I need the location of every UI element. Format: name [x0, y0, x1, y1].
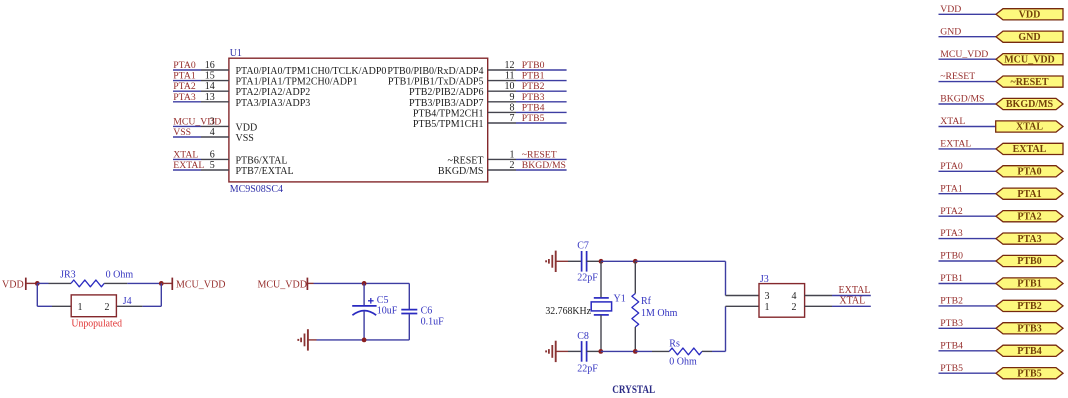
wire to port PTB2	[939, 305, 997, 307]
svg-text:PTB4: PTB4	[522, 102, 545, 113]
svg-text:PTA2: PTA2	[1017, 211, 1041, 222]
port PTA3	[996, 233, 1063, 245]
ground (C5/C6 section)	[298, 329, 308, 350]
C6 value 0.1uF	[421, 316, 445, 327]
svg-text:0 Ohm: 0 Ohm	[669, 356, 697, 367]
svg-text:7: 7	[510, 113, 515, 124]
net label PTB5 (port row)	[940, 363, 963, 374]
net label BKGD/MS	[522, 160, 566, 171]
svg-text:PTB2: PTB2	[1017, 301, 1041, 312]
J3 designator	[760, 274, 769, 285]
capacitor C6	[401, 283, 417, 340]
wire J3 pin 2 (XTAL)	[805, 305, 871, 307]
U1 pin name PTB1/PIB1/TxD/ADP5	[388, 77, 484, 88]
U1 pin 2 (BKGD/MS) right wire	[488, 160, 567, 171]
svg-text:2: 2	[510, 160, 515, 171]
net label GND (port row)	[940, 26, 961, 37]
U1 designator	[230, 48, 242, 59]
svg-text:XTAL: XTAL	[1016, 122, 1043, 133]
C5 value 10uF	[377, 306, 398, 317]
junction node C5 top	[362, 281, 367, 286]
port MCU_VDD	[996, 54, 1063, 66]
svg-text:6: 6	[210, 149, 215, 160]
svg-text:XTAL: XTAL	[173, 149, 198, 160]
svg-text:C6: C6	[421, 306, 433, 317]
ground (C8)	[546, 341, 556, 362]
svg-text:2: 2	[105, 302, 110, 313]
svg-text:PTA1: PTA1	[173, 71, 196, 82]
Y1 designator	[614, 293, 626, 304]
wire top row to J3 pin 3	[635, 261, 759, 295]
U1 pin 5 (EXTAL) left wire	[173, 160, 229, 171]
JR3 value 0 Ohm	[106, 270, 134, 281]
svg-text:PTB7/EXTAL: PTB7/EXTAL	[236, 166, 294, 177]
net label PTB5	[522, 113, 545, 124]
net label PTB0	[522, 60, 545, 71]
svg-text:~RESET: ~RESET	[940, 71, 975, 82]
wire to port EXTAL	[939, 148, 997, 150]
svg-text:PTB5: PTB5	[940, 363, 963, 374]
U1 pin name PTB7/EXTAL	[236, 166, 294, 177]
svg-text:EXTAL: EXTAL	[1013, 144, 1047, 155]
capacitor C7	[582, 251, 587, 272]
crystal Y1	[591, 261, 611, 351]
port EXTAL	[996, 143, 1063, 155]
J3 pin number 2	[792, 302, 797, 313]
svg-text:PTA3/PIA3/ADP3: PTA3/PIA3/ADP3	[236, 98, 311, 109]
J4 note Unpopulated	[71, 318, 122, 329]
net label BKGD/MS (port row)	[940, 94, 984, 105]
svg-text:4: 4	[210, 127, 215, 138]
svg-text:22pF: 22pF	[577, 363, 598, 374]
svg-text:PTB1: PTB1	[1017, 279, 1041, 290]
capacitor C5 (polarized)	[352, 283, 376, 340]
svg-text:MCU_VDD: MCU_VDD	[940, 49, 988, 60]
svg-text:VDD: VDD	[1019, 10, 1041, 21]
port GND	[996, 31, 1063, 43]
U1 pin name PTB6/XTAL	[236, 155, 288, 166]
svg-text:PTB3: PTB3	[522, 92, 545, 103]
svg-text:PTA3: PTA3	[940, 228, 963, 239]
svg-text:1M Ohm: 1M Ohm	[641, 308, 678, 319]
net label EXTAL	[173, 160, 204, 171]
net label PTA1 (port row)	[940, 183, 963, 194]
U1 pin 10 (PTB2) right wire	[488, 81, 567, 92]
U1 pin name PTB4/TPM2CH1	[413, 108, 484, 119]
svg-text:PTA1/PIA1/TPM2CH0/ADP1: PTA1/PIA1/TPM2CH0/ADP1	[236, 77, 358, 88]
svg-text:10uF: 10uF	[377, 306, 398, 317]
svg-text:PTB2: PTB2	[522, 81, 545, 92]
svg-text:EXTAL: EXTAL	[839, 285, 871, 296]
U1 pin 14 (PTA2) left wire	[173, 81, 229, 92]
port PTA1	[996, 188, 1063, 200]
U1 pin name PTA2/PIA2/ADP2	[236, 87, 311, 98]
net label PTB3 (port row)	[940, 318, 963, 329]
U1 pin 15 (PTA1) left wire	[173, 71, 229, 82]
svg-text:PTB5/TPM1CH1: PTB5/TPM1CH1	[413, 119, 484, 130]
U1 pin 3 (MCU_VDD) left wire	[173, 116, 229, 127]
svg-text:PTB2: PTB2	[940, 296, 963, 307]
svg-text:PTB0: PTB0	[940, 251, 963, 262]
JR3 designator	[60, 270, 76, 281]
svg-text:PTA0: PTA0	[940, 161, 963, 172]
svg-text:PTA2/PIA2/ADP2: PTA2/PIA2/ADP2	[236, 87, 311, 98]
U1 pin name PTB0/PIB0/RxD/ADP4	[387, 66, 483, 77]
U1 pin 11 (PTB1) right wire	[488, 71, 567, 82]
C6 designator	[421, 306, 433, 317]
net label EXTAL (port row)	[940, 139, 971, 150]
wire to port BKGD/MS	[939, 103, 997, 105]
svg-text:PTB0: PTB0	[1017, 256, 1041, 267]
svg-text:PTB3: PTB3	[940, 318, 963, 329]
net label PTB1 (port row)	[940, 273, 963, 284]
port MCU_VDD (JR3 row)	[161, 278, 225, 291]
svg-text:16: 16	[205, 60, 215, 71]
net label MCU_VDD	[173, 116, 221, 127]
J4 pin number 2	[105, 302, 110, 313]
net label PTA2 (port row)	[940, 206, 963, 217]
svg-text:22pF: 22pF	[577, 273, 598, 284]
svg-text:C5: C5	[377, 295, 389, 306]
svg-text:PTB1/PIB1/TxD/ADP5: PTB1/PIB1/TxD/ADP5	[388, 77, 484, 88]
svg-text:13: 13	[205, 92, 215, 103]
net label PTB2 (port row)	[940, 296, 963, 307]
junction node VDD/JR3	[35, 281, 40, 286]
svg-text:PTB4: PTB4	[940, 340, 963, 351]
svg-text:8: 8	[510, 102, 515, 113]
wire to port PTB4	[939, 350, 997, 352]
J3 pin number 1	[765, 302, 770, 313]
Rf designator	[641, 296, 652, 307]
wire node to node (bottom)	[601, 350, 636, 352]
svg-text:~RESET: ~RESET	[1011, 77, 1049, 88]
C7 designator	[577, 240, 589, 251]
svg-text:XTAL: XTAL	[940, 116, 965, 127]
wire Rs to J3 pin 1	[702, 306, 759, 351]
net label PTA0 (port row)	[940, 161, 963, 172]
U1 pin 12 (PTB0) right wire	[488, 60, 567, 71]
net label XTAL	[173, 149, 198, 160]
junction node XTAL top (Y1)	[599, 259, 604, 264]
net label PTB3	[522, 92, 545, 103]
Rs value 0 Ohm	[669, 356, 697, 367]
net label VSS	[173, 127, 191, 138]
svg-text:4: 4	[792, 291, 797, 302]
U1 pin name PTA0/PIA0/TPM1CH0/TCLK/ADP0	[236, 66, 387, 77]
C7 value 22pF	[577, 273, 598, 284]
svg-text:PTB4/TPM2CH1: PTB4/TPM2CH1	[413, 108, 484, 119]
svg-text:J3: J3	[760, 274, 769, 285]
svg-text:U1: U1	[230, 48, 242, 59]
connector J4 body	[71, 295, 116, 317]
junction node C5 bottom	[362, 338, 367, 343]
wire C8 to node	[587, 350, 601, 352]
net label ~RESET	[522, 149, 557, 160]
svg-text:Y1: Y1	[614, 293, 626, 304]
svg-text:PTB3/PIB3/ADP7: PTB3/PIB3/ADP7	[409, 98, 483, 109]
svg-text:BKGD/MS: BKGD/MS	[940, 94, 984, 105]
U1 pin 6 (XTAL) left wire	[173, 149, 229, 160]
wire to port PTB5	[939, 372, 997, 374]
svg-text:VSS: VSS	[173, 127, 191, 138]
resistor Rf	[632, 261, 639, 351]
svg-text:CRYSTAL: CRYSTAL	[612, 384, 655, 396]
svg-text:3: 3	[765, 291, 770, 302]
svg-text:5: 5	[210, 160, 215, 171]
U1 pin name PTA1/PIA1/TPM2CH0/ADP1	[236, 77, 358, 88]
capacitor C8	[582, 341, 587, 362]
wire to port MCU_VDD	[939, 58, 997, 60]
wire ground to C5/C6 bottom	[308, 339, 409, 341]
svg-text:J4: J4	[123, 296, 132, 307]
U1 pin 1 (~RESET) right wire	[488, 149, 567, 160]
net label EXTAL	[839, 285, 871, 296]
svg-text:Unpopulated: Unpopulated	[71, 318, 122, 329]
svg-text:VDD: VDD	[2, 280, 24, 291]
svg-text:MCU_VDD: MCU_VDD	[1004, 54, 1055, 65]
svg-text:9: 9	[510, 92, 515, 103]
svg-text:1: 1	[765, 302, 770, 313]
svg-text:PTA0/PIA0/TPM1CH0/TCLK/ADP0: PTA0/PIA0/TPM1CH0/TCLK/ADP0	[236, 66, 387, 77]
J4 pin number 1	[78, 302, 83, 313]
port PTB1	[996, 278, 1063, 290]
svg-text:PTB1: PTB1	[522, 71, 545, 82]
svg-text:PTA0: PTA0	[173, 60, 196, 71]
svg-text:GND: GND	[940, 26, 961, 37]
svg-text:BKGD/MS: BKGD/MS	[438, 166, 484, 177]
svg-text:MCU_VDD: MCU_VDD	[176, 280, 225, 291]
svg-text:15: 15	[205, 71, 215, 82]
svg-text:VSS: VSS	[236, 133, 254, 144]
junction node JR3/MCU_VDD	[159, 281, 164, 286]
svg-text:GND: GND	[1018, 32, 1040, 43]
U1 pin name BKGD/MS	[438, 166, 484, 177]
svg-text:C7: C7	[577, 240, 589, 251]
wire to port PTA0	[939, 170, 997, 172]
port PTB2	[996, 300, 1063, 312]
wire to port PTB3	[939, 327, 997, 329]
svg-text:PTA1: PTA1	[1017, 189, 1041, 200]
svg-text:MCU_VDD: MCU_VDD	[173, 116, 221, 127]
port MCU_VDD (C5 row)	[258, 278, 314, 291]
Y1 value 32.768KHz	[545, 306, 591, 317]
wire MCU_VDD to C5/C6 top	[314, 282, 410, 284]
U1 pin name PTB2/PIB2/ADP6	[409, 87, 483, 98]
U1 pin 4 (VSS) left wire	[173, 127, 229, 138]
U1 part number MC9S08SC4	[230, 184, 283, 195]
port VDD	[996, 9, 1063, 21]
svg-text:XTAL: XTAL	[839, 296, 865, 307]
wire to port PTA3	[939, 238, 997, 240]
svg-text:JR3: JR3	[60, 270, 76, 281]
C8 designator	[577, 331, 589, 342]
resistor JR3	[71, 280, 104, 287]
wire to port XTAL	[939, 126, 997, 128]
net label PTB4	[522, 102, 545, 113]
svg-text:10: 10	[505, 81, 515, 92]
net label MCU_VDD (port row)	[940, 49, 988, 60]
port PTB0	[996, 255, 1063, 267]
Rs designator	[669, 339, 680, 350]
U1 pin name PTA3/PIA3/ADP3	[236, 98, 311, 109]
svg-text:PTB4: PTB4	[1017, 346, 1041, 357]
svg-text:~RESET: ~RESET	[448, 155, 484, 166]
connector J3 body	[759, 284, 805, 318]
svg-text:EXTAL: EXTAL	[940, 139, 971, 150]
svg-text:PTB5: PTB5	[522, 113, 545, 124]
wire ground to C7	[556, 260, 582, 262]
wire node to Rs	[635, 350, 669, 352]
wire to port ~RESET	[939, 81, 997, 83]
Rf value 1M Ohm	[641, 308, 678, 319]
svg-text:PTB5: PTB5	[1017, 368, 1041, 379]
wire to port PTA2	[939, 215, 997, 217]
net label PTA1	[173, 71, 196, 82]
svg-text:EXTAL: EXTAL	[173, 160, 204, 171]
U1 pin name VSS	[236, 133, 254, 144]
J3 pin number 4	[792, 291, 797, 302]
junction node Rf bottom	[633, 349, 638, 354]
wire VDD down to J4 pin 1	[37, 283, 71, 306]
svg-text:PTB6/XTAL: PTB6/XTAL	[236, 155, 288, 166]
ground (C7)	[546, 251, 556, 272]
junction node XTAL bottom (Y1)	[598, 349, 603, 354]
svg-text:0.1uF: 0.1uF	[421, 316, 445, 327]
svg-text:BKGD/MS: BKGD/MS	[522, 160, 566, 171]
port ~RESET	[996, 76, 1063, 88]
svg-text:PTA1: PTA1	[940, 183, 963, 194]
wire C7 to node	[587, 260, 601, 262]
wire to port VDD	[939, 13, 997, 15]
svg-text:PTB0: PTB0	[522, 60, 545, 71]
svg-text:PTA2: PTA2	[173, 81, 196, 92]
svg-text:VDD: VDD	[236, 122, 258, 133]
wire JR3 to MCU_VDD	[104, 282, 161, 284]
wire VDD to JR3	[37, 282, 71, 284]
wire to port PTB0	[939, 260, 997, 262]
port PTB5	[996, 368, 1063, 380]
svg-text:PTA2: PTA2	[940, 206, 963, 217]
svg-text:0 Ohm: 0 Ohm	[106, 270, 134, 281]
port XTAL	[996, 121, 1063, 133]
port PTA0	[996, 166, 1063, 178]
net label PTB4 (port row)	[940, 340, 963, 351]
U1 pin name ~RESET	[448, 155, 484, 166]
svg-text:VDD: VDD	[940, 4, 961, 15]
J4 designator	[123, 296, 132, 307]
C5 designator	[377, 295, 389, 306]
svg-text:12: 12	[505, 60, 515, 71]
U1 pin 13 (PTA3) left wire	[173, 92, 229, 103]
U1 pin 7 (PTB5) right wire	[488, 113, 567, 124]
net label PTB2	[522, 81, 545, 92]
wire to port PTB1	[939, 283, 997, 285]
wire node to node (top)	[601, 260, 635, 262]
net label XTAL	[839, 296, 865, 307]
svg-text:Rs: Rs	[669, 339, 680, 350]
U1 pin name PTB5/TPM1CH1	[413, 119, 484, 130]
svg-text:2: 2	[792, 302, 797, 313]
svg-text:Rf: Rf	[641, 296, 652, 307]
svg-text:1: 1	[510, 149, 515, 160]
port VDD (left sheet entry)	[2, 278, 35, 291]
net label PTA2	[173, 81, 196, 92]
svg-text:32.768KHz: 32.768KHz	[545, 306, 591, 317]
svg-text:14: 14	[205, 81, 215, 92]
svg-text:PTA3: PTA3	[1017, 234, 1041, 245]
svg-text:MCU_VDD: MCU_VDD	[258, 280, 307, 291]
net label PTA3	[173, 92, 196, 103]
port PTB4	[996, 345, 1063, 357]
svg-text:11: 11	[505, 71, 515, 82]
svg-text:PTB1: PTB1	[940, 273, 963, 284]
U1 pin name VDD	[236, 122, 258, 133]
net label ~RESET (port row)	[940, 71, 975, 82]
U1 pin 9 (PTB3) right wire	[488, 92, 567, 103]
net label PTA3 (port row)	[940, 228, 963, 239]
net label XTAL (port row)	[940, 116, 965, 127]
U1 pin 16 (PTA0) left wire	[173, 60, 229, 71]
wire to port GND	[939, 36, 997, 38]
svg-text:~RESET: ~RESET	[522, 149, 557, 160]
svg-text:C8: C8	[577, 331, 589, 342]
resistor Rs	[669, 348, 702, 355]
title CRYSTAL	[612, 384, 655, 396]
wire MCU_VDD down to J4 pin 2	[116, 283, 161, 306]
svg-text:PTB0/PIB0/RxD/ADP4: PTB0/PIB0/RxD/ADP4	[387, 66, 483, 77]
port PTB3	[996, 323, 1063, 335]
junction node Rf top	[633, 259, 638, 264]
svg-text:MC9S08SC4: MC9S08SC4	[230, 184, 283, 195]
wire ground to C8	[556, 350, 582, 352]
net label PTA0	[173, 60, 196, 71]
svg-text:PTA3: PTA3	[173, 92, 196, 103]
wire to port PTA1	[939, 193, 997, 195]
svg-text:1: 1	[78, 302, 83, 313]
port PTA2	[996, 211, 1063, 223]
net label VDD (port row)	[940, 4, 961, 15]
C8 value 22pF	[577, 363, 598, 374]
svg-text:PTB2/PIB2/ADP6: PTB2/PIB2/ADP6	[409, 87, 483, 98]
net label PTB0 (port row)	[940, 251, 963, 262]
port BKGD/MS	[996, 98, 1063, 110]
J3 pin number 3	[765, 291, 770, 302]
svg-text:BKGD/MS: BKGD/MS	[1006, 99, 1054, 110]
svg-text:PTB3: PTB3	[1017, 324, 1041, 335]
wire J3 pin 4 (EXTAL)	[805, 295, 871, 297]
U1 pin name PTB3/PIB3/ADP7	[409, 98, 483, 109]
net label PTB1	[522, 71, 545, 82]
U1 pin 8 (PTB4) right wire	[488, 102, 567, 113]
IC U1 body	[229, 58, 488, 182]
svg-text:PTA0: PTA0	[1017, 167, 1041, 178]
